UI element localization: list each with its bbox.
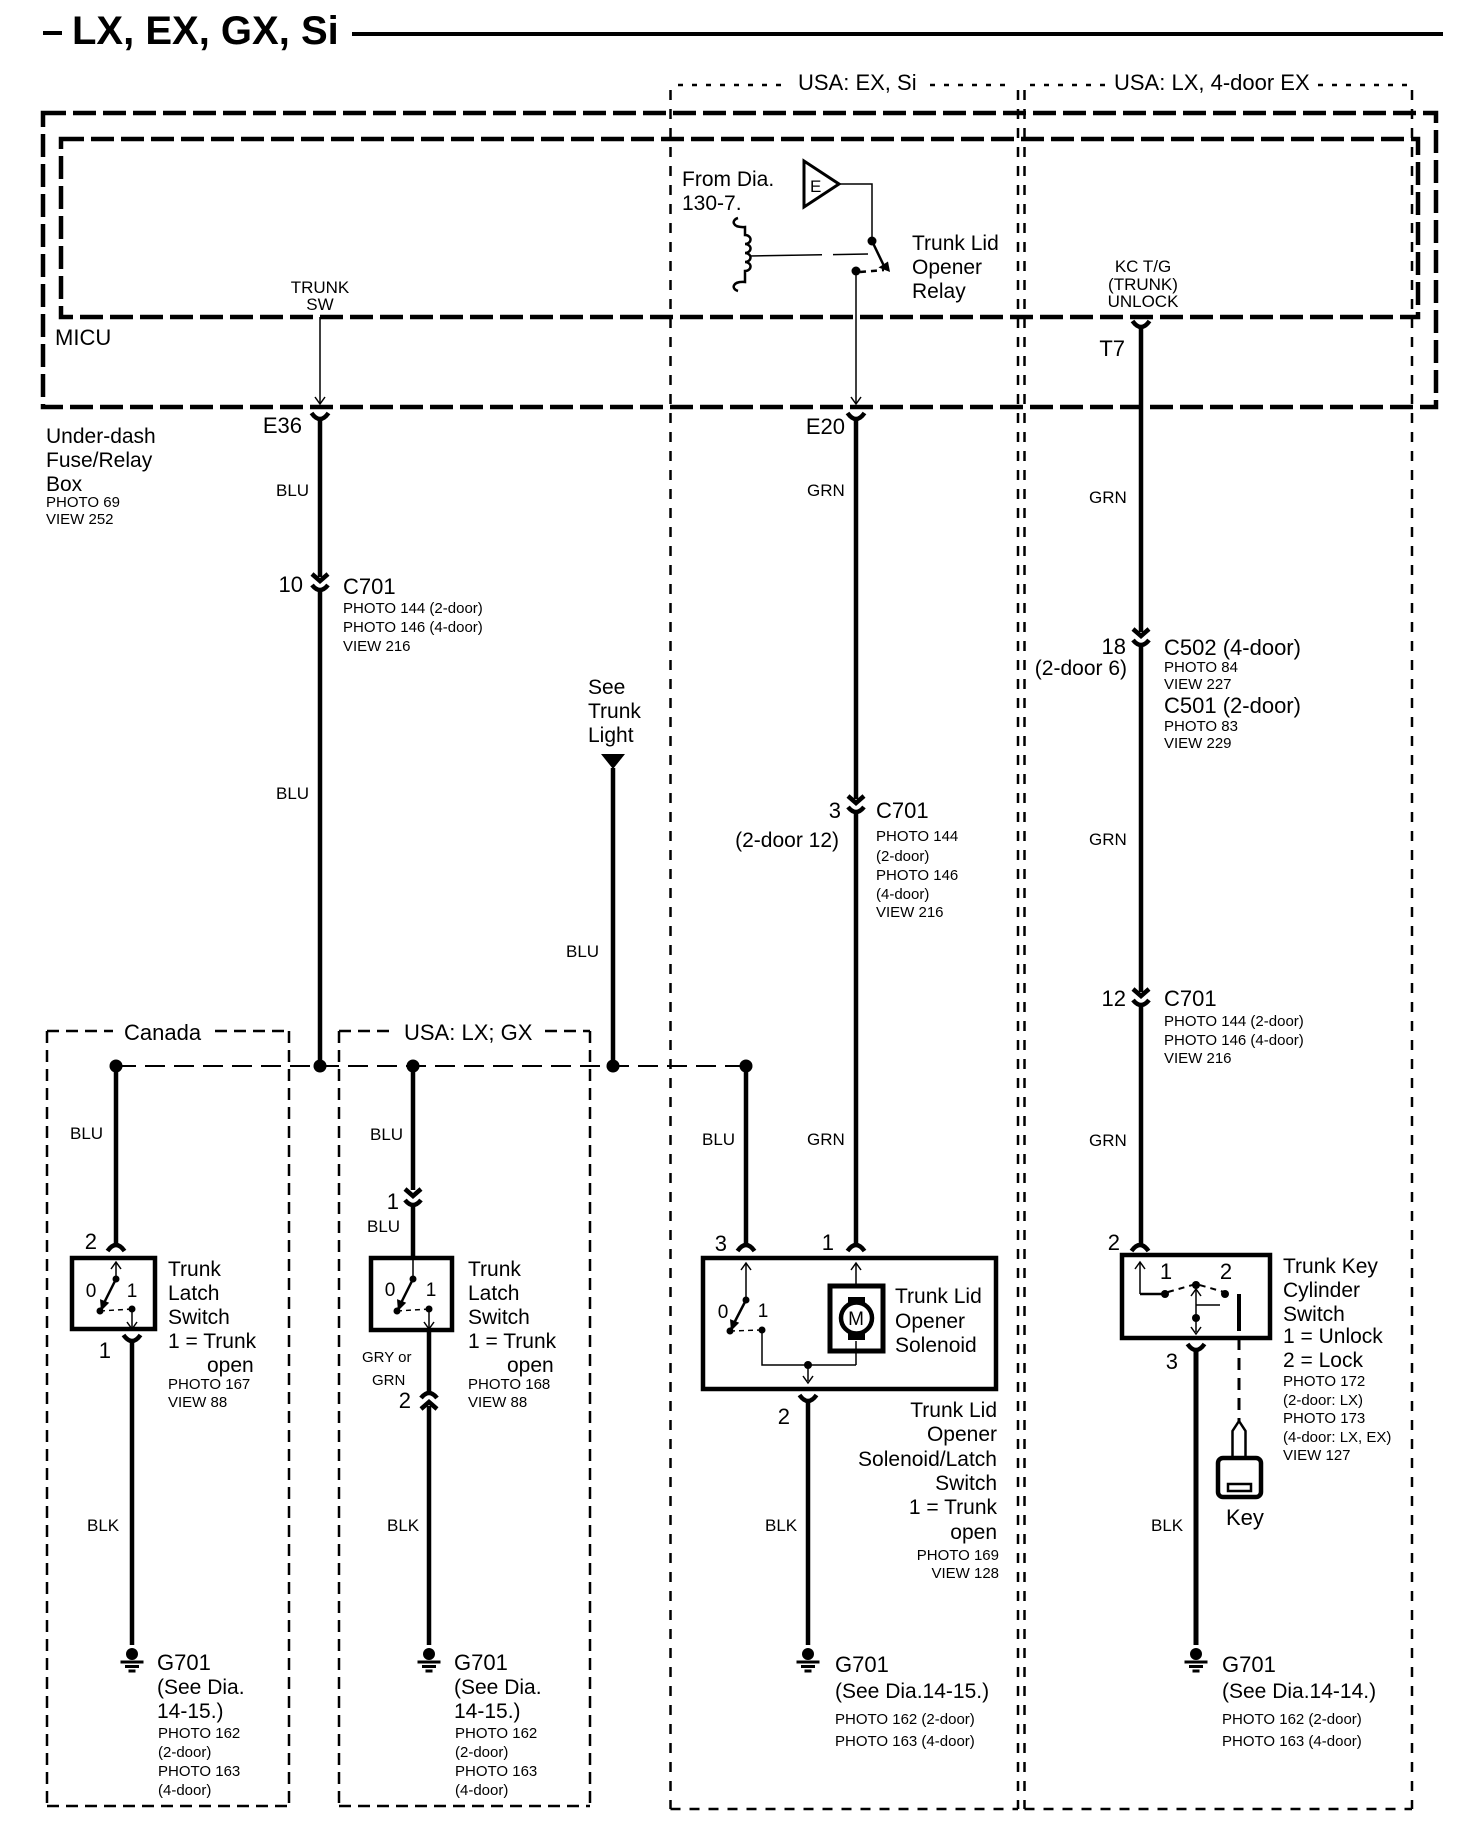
relay dashed contact segment [860, 270, 884, 272]
solenoid internal pin1 arrow [855, 1263, 857, 1297]
dashed region box: Canada [47, 1030, 113, 1033]
svg-text:1: 1 [387, 1189, 399, 1214]
svg-text:T7: T7 [1099, 336, 1125, 361]
motor M symbol [830, 1286, 883, 1351]
svg-text:G701: G701 [1222, 1652, 1276, 1677]
svg-text:(2-door: LX): (2-door: LX) [1283, 1392, 1363, 1409]
connector pin 3 solenoid [738, 1245, 755, 1251]
svg-text:3: 3 [715, 1231, 727, 1256]
wire triangle to relay contact [839, 184, 872, 237]
svg-text:From Dia.: From Dia. [682, 168, 774, 191]
wiper arrow up [1195, 1290, 1197, 1318]
svg-text:1: 1 [1160, 1259, 1172, 1284]
svg-text:Fuse/Relay: Fuse/Relay [46, 449, 153, 472]
svg-text:1: 1 [99, 1338, 111, 1363]
svg-text:(4-door): (4-door) [158, 1782, 211, 1799]
svg-text:PHOTO 146: PHOTO 146 [876, 867, 958, 884]
svg-text:PHOTO 173: PHOTO 173 [1283, 1410, 1365, 1427]
svg-text:Box: Box [46, 473, 83, 496]
trunk key cylinder switch box [1122, 1255, 1270, 1338]
wire GRN T7 to C502 [1139, 326, 1144, 632]
wire BLU E36 to C701 [318, 418, 323, 577]
inline connector pin 1 [405, 1189, 421, 1196]
svg-text:2: 2 [778, 1404, 790, 1429]
svg-text:(4-door): (4-door) [876, 886, 929, 903]
latch switch common dot [743, 1297, 750, 1304]
svg-text:PHOTO 162: PHOTO 162 [455, 1725, 537, 1742]
svg-text:PHOTO 146 (4-door): PHOTO 146 (4-door) [1164, 1032, 1304, 1049]
svg-text:G701: G701 [454, 1650, 508, 1675]
svg-text:2 = Lock: 2 = Lock [1283, 1349, 1363, 1372]
svg-text:(See Dia.: (See Dia. [454, 1676, 542, 1699]
svg-text:Canada: Canada [124, 1020, 202, 1045]
dashed contact link [730, 1330, 762, 1331]
internal pin arrow down [428, 1309, 430, 1328]
dashed contact link [100, 1309, 132, 1311]
wire BLU trunk light to junction [611, 768, 616, 1066]
svg-text:Trunk: Trunk [168, 1258, 221, 1281]
svg-text:Latch: Latch [168, 1282, 219, 1305]
svg-text:GRN: GRN [1089, 1131, 1127, 1150]
dashed link to key [1238, 1338, 1241, 1421]
Canada trunk latch switch box [72, 1258, 155, 1329]
connector C701 pin 10 [312, 574, 328, 581]
svg-text:1: 1 [822, 1230, 834, 1255]
svg-text:Opener: Opener [895, 1310, 965, 1333]
svg-text:2: 2 [85, 1229, 97, 1254]
svg-text:2: 2 [1108, 1230, 1120, 1255]
svg-text:GRN: GRN [372, 1372, 405, 1389]
svg-text:BLU: BLU [702, 1130, 735, 1149]
svg-text:open: open [207, 1354, 254, 1377]
svg-text:PHOTO 146 (4-door): PHOTO 146 (4-door) [343, 619, 483, 636]
connector C701 pin 3 [848, 796, 864, 803]
connector E20 [848, 413, 865, 419]
svg-text:PHOTO 144 (2-door): PHOTO 144 (2-door) [1164, 1013, 1304, 1030]
svg-text:(2-door 12): (2-door 12) [735, 829, 839, 852]
svg-text:SW: SW [306, 295, 333, 314]
latch switch lever [731, 1300, 746, 1329]
switch contact 1 dot [426, 1306, 433, 1313]
svg-text:BLU: BLU [367, 1217, 400, 1236]
svg-text:GRN: GRN [807, 1130, 845, 1149]
wire GRN C701 to solenoid pin 1 [854, 812, 859, 1246]
svg-text:Switch: Switch [935, 1472, 997, 1495]
key symbol [1233, 1421, 1246, 1458]
svg-text:PHOTO 169: PHOTO 169 [917, 1547, 999, 1564]
ground G701 (Canada) [126, 1648, 138, 1660]
svg-text:Opener: Opener [912, 256, 982, 279]
connector pin 3 key switch [1188, 1344, 1205, 1350]
svg-text:PHOTO 163 (4-door): PHOTO 163 (4-door) [835, 1733, 975, 1750]
svg-text:3: 3 [1166, 1349, 1178, 1374]
svg-text:VIEW 252: VIEW 252 [46, 511, 114, 528]
motor to internal bus [855, 1341, 857, 1365]
dashed lever arcs [1168, 1284, 1224, 1292]
MICU inner dashed box [61, 139, 1418, 317]
svg-text:14-15.): 14-15.) [157, 1700, 224, 1723]
wire BLK key switch to ground [1194, 1350, 1199, 1645]
svg-text:E36: E36 [263, 413, 302, 438]
svg-text:BLU: BLU [70, 1124, 103, 1143]
connector pin 2 key switch [1132, 1245, 1149, 1251]
svg-text:VIEW 88: VIEW 88 [168, 1394, 227, 1411]
switch lever [398, 1279, 413, 1309]
svg-text:(2-door): (2-door) [158, 1744, 211, 1761]
svg-text:2: 2 [399, 1388, 411, 1413]
contact 1 dot [1161, 1290, 1169, 1298]
svg-text:Solenoid: Solenoid [895, 1334, 977, 1357]
svg-text:2: 2 [1220, 1259, 1232, 1284]
svg-text:UNLOCK: UNLOCK [1108, 292, 1180, 311]
switch internal top arrow [412, 1258, 414, 1279]
svg-text:(2-door 6): (2-door 6) [1035, 657, 1127, 680]
svg-text:C501 (2-door): C501 (2-door) [1164, 693, 1301, 718]
svg-text:open: open [507, 1354, 554, 1377]
svg-text:G701: G701 [835, 1652, 889, 1677]
svg-text:PHOTO 162 (2-door): PHOTO 162 (2-door) [835, 1711, 975, 1728]
svg-text:VIEW 128: VIEW 128 [931, 1565, 999, 1582]
switch contact 1 dot [129, 1306, 136, 1313]
svg-text:(See Dia.14-15.): (See Dia.14-15.) [835, 1680, 989, 1703]
connector C502 pin 18 [1133, 629, 1149, 636]
relay lever arm [872, 241, 884, 266]
svg-text:PHOTO 69: PHOTO 69 [46, 494, 120, 511]
svg-text:BLU: BLU [370, 1125, 403, 1144]
svg-text:PHOTO 144 (2-door): PHOTO 144 (2-door) [343, 600, 483, 617]
wire BLK connector 2 to ground [427, 1406, 432, 1645]
svg-text:1: 1 [426, 1280, 437, 1301]
latch contact 0 dot [727, 1328, 734, 1335]
power triangle E [804, 161, 839, 207]
wire GRN E20 to C701 [854, 418, 859, 799]
svg-text:GRN: GRN [1089, 830, 1127, 849]
switch contact 0 dot [394, 1308, 401, 1315]
svg-text:130-7.: 130-7. [682, 192, 742, 215]
ground G701 (key switch) [1190, 1648, 1202, 1660]
svg-text:VIEW 88: VIEW 88 [468, 1394, 527, 1411]
svg-text:BLK: BLK [87, 1516, 120, 1535]
relay coil [734, 218, 751, 291]
svg-text:VIEW 227: VIEW 227 [1164, 676, 1232, 693]
dashed region box: USA: LX; GX [339, 1030, 395, 1033]
wire BLU junction to Canada trunk latch switch [114, 1066, 119, 1246]
svg-text:0: 0 [718, 1302, 729, 1323]
title rule line [352, 32, 1443, 36]
wire BLU C701 to junction [318, 590, 323, 1066]
svg-text:BLU: BLU [566, 942, 599, 961]
title dash [43, 31, 62, 35]
svg-text:Light: Light [588, 724, 634, 747]
svg-text:KC T/G: KC T/G [1115, 257, 1171, 276]
connector pin 2 Canada switch [108, 1245, 125, 1251]
svg-text:VIEW 229: VIEW 229 [1164, 735, 1232, 752]
switch common dot [410, 1276, 417, 1283]
svg-text:VIEW 127: VIEW 127 [1283, 1447, 1351, 1464]
svg-text:(2-door): (2-door) [876, 848, 929, 865]
latch contact 1 dot [759, 1327, 766, 1334]
svg-text:Switch: Switch [168, 1306, 230, 1329]
svg-text:Trunk: Trunk [588, 700, 641, 723]
connector T7 [1133, 321, 1150, 327]
svg-text:C701: C701 [1164, 986, 1217, 1011]
svg-text:0: 0 [86, 1281, 97, 1302]
svg-text:14-15.): 14-15.) [454, 1700, 521, 1723]
wire BLK solenoid to ground [806, 1400, 811, 1645]
svg-text:1 = Trunk: 1 = Trunk [909, 1496, 998, 1519]
svg-text:PHOTO 163 (4-door): PHOTO 163 (4-door) [1222, 1733, 1362, 1750]
svg-text:BLK: BLK [765, 1516, 798, 1535]
svg-text:VIEW 216: VIEW 216 [1164, 1050, 1232, 1067]
connector E36 [312, 413, 329, 419]
internal pin 3 arrow down [1195, 1318, 1197, 1332]
wire BLU connector to switch [411, 1205, 416, 1258]
svg-text:USA: EX, Si: USA: EX, Si [798, 70, 917, 95]
svg-text:VIEW 216: VIEW 216 [343, 638, 411, 655]
connector pin 1 solenoid [848, 1245, 865, 1251]
wire GRY/GRN switch to connector 2 [427, 1330, 432, 1392]
svg-text:Cylinder: Cylinder [1283, 1279, 1360, 1302]
svg-text:(4-door): (4-door) [455, 1782, 508, 1799]
svg-text:Latch: Latch [468, 1282, 519, 1305]
svg-text:GRN: GRN [1089, 488, 1127, 507]
svg-text:0: 0 [385, 1280, 396, 1301]
wire BLU junction to solenoid pin 3 [744, 1066, 749, 1246]
svg-text:Opener: Opener [927, 1423, 997, 1446]
svg-text:C502 (4-door): C502 (4-door) [1164, 635, 1301, 660]
ground G701 (solenoid) [802, 1648, 814, 1660]
junction node dots [110, 1060, 123, 1073]
USA trunk latch switch box [371, 1258, 452, 1330]
svg-text:(2-door): (2-door) [455, 1744, 508, 1761]
svg-text:1 = Trunk: 1 = Trunk [168, 1330, 257, 1353]
svg-text:C701: C701 [343, 574, 396, 599]
svg-text:PHOTO 167: PHOTO 167 [168, 1376, 250, 1393]
relay bottom contact dot [852, 267, 861, 276]
wire BLU junction to connector 1 [411, 1066, 416, 1190]
solenoid internal pin3 arrow [745, 1263, 747, 1300]
svg-text:PHOTO 83: PHOTO 83 [1164, 718, 1238, 735]
svg-text:Switch: Switch [468, 1306, 530, 1329]
wire GRN C701 to key switch [1139, 1005, 1144, 1246]
switch contact 0 dot [97, 1308, 104, 1315]
svg-text:1 = Unlock: 1 = Unlock [1283, 1325, 1383, 1348]
svg-text:Trunk Lid: Trunk Lid [910, 1399, 997, 1422]
key switch internal pin 2 arrow [1139, 1262, 1141, 1294]
dashed region box: USA: EX, Si [678, 84, 788, 87]
svg-text:BLK: BLK [1151, 1516, 1184, 1535]
svg-text:1: 1 [758, 1301, 769, 1322]
svg-text:PHOTO 168: PHOTO 168 [468, 1376, 550, 1393]
inline connector pin 2 [421, 1393, 437, 1398]
svg-text:E20: E20 [806, 414, 845, 439]
svg-text:USA: LX, 4-door EX: USA: LX, 4-door EX [1114, 70, 1310, 95]
svg-text:BLK: BLK [387, 1516, 420, 1535]
MICU outer dashed box (under-dash fuse/relay box) [43, 113, 1436, 407]
relay contact top dot [868, 237, 877, 246]
dashed region box: USA: LX, 4-door EX [1030, 84, 1105, 87]
svg-text:MICU: MICU [55, 325, 111, 350]
svg-text:(See Dia.: (See Dia. [157, 1676, 245, 1699]
trunk light arrow triangle [601, 754, 625, 769]
switch lever [101, 1279, 116, 1309]
svg-text:(See Dia.14-14.): (See Dia.14-14.) [1222, 1680, 1376, 1703]
svg-text:Trunk Lid: Trunk Lid [912, 232, 999, 255]
svg-text:E: E [810, 177, 821, 196]
pivot dot [1192, 1281, 1200, 1289]
svg-text:10: 10 [279, 572, 303, 597]
wire GRN C502 to C701 [1139, 645, 1144, 992]
svg-text:PHOTO 163: PHOTO 163 [455, 1763, 537, 1780]
svg-text:Trunk Key: Trunk Key [1283, 1255, 1378, 1278]
junction dashed bus line [116, 1065, 746, 1067]
svg-text:PHOTO 84: PHOTO 84 [1164, 659, 1238, 676]
svg-text:1 = Trunk: 1 = Trunk [468, 1330, 557, 1353]
svg-text:C701: C701 [876, 798, 929, 823]
wire thin from TRUNK SW to E36 [319, 317, 321, 404]
internal wiring to pin 2 [762, 1330, 856, 1365]
svg-text:open: open [950, 1521, 997, 1544]
svg-text:Under-dash: Under-dash [46, 425, 156, 448]
svg-text:Key: Key [1226, 1505, 1264, 1530]
svg-text:Trunk: Trunk [468, 1258, 521, 1281]
svg-text:PHOTO 162 (2-door): PHOTO 162 (2-door) [1222, 1711, 1362, 1728]
internal link to key stem [1196, 1304, 1220, 1306]
svg-text:USA: LX; GX: USA: LX; GX [404, 1020, 533, 1045]
svg-text:1: 1 [127, 1281, 138, 1302]
relay mechanical dashed link [750, 254, 868, 256]
internal pin 1 arrow down [131, 1309, 133, 1328]
svg-text:VIEW 216: VIEW 216 [876, 904, 944, 921]
svg-text:PHOTO 144: PHOTO 144 [876, 828, 958, 845]
connector pin 1 below Canada switch [124, 1335, 141, 1341]
svg-text:Relay: Relay [912, 280, 966, 303]
switch internal pin 2 arrow [115, 1262, 117, 1279]
svg-text:PHOTO 162: PHOTO 162 [158, 1725, 240, 1742]
svg-text:See: See [588, 676, 625, 699]
svg-text:PHOTO 163: PHOTO 163 [158, 1763, 240, 1780]
svg-text:BLU: BLU [276, 784, 309, 803]
svg-text:3: 3 [829, 798, 841, 823]
ground G701 (USA LX GX) [423, 1648, 435, 1660]
svg-text:BLU: BLU [276, 481, 309, 500]
svg-text:Solenoid/Latch: Solenoid/Latch [858, 1448, 997, 1471]
svg-text:Trunk Lid: Trunk Lid [895, 1285, 982, 1308]
svg-text:G701: G701 [157, 1650, 211, 1675]
connector pin 2 solenoid [800, 1395, 817, 1401]
dashed contact link [397, 1309, 429, 1311]
svg-text:PHOTO 172: PHOTO 172 [1283, 1373, 1365, 1390]
svg-text:12: 12 [1102, 986, 1126, 1011]
connector C701 pin 12 [1133, 989, 1149, 996]
svg-text:LX, EX, GX, Si: LX, EX, GX, Si [72, 9, 339, 53]
wire BLK Canada switch to ground [130, 1340, 135, 1645]
switch common dot [113, 1276, 120, 1283]
contact 2 dot [1221, 1290, 1229, 1298]
svg-text:GRN: GRN [807, 481, 845, 500]
svg-text:Switch: Switch [1283, 1303, 1345, 1326]
trunk lid opener solenoid box [703, 1258, 996, 1389]
svg-text:(4-door: LX, EX): (4-door: LX, EX) [1283, 1429, 1391, 1446]
svg-text:18: 18 [1102, 634, 1126, 659]
svg-text:GRY or: GRY or [362, 1349, 411, 1366]
svg-text:M: M [848, 1309, 864, 1330]
wire relay to E20 [855, 271, 857, 404]
